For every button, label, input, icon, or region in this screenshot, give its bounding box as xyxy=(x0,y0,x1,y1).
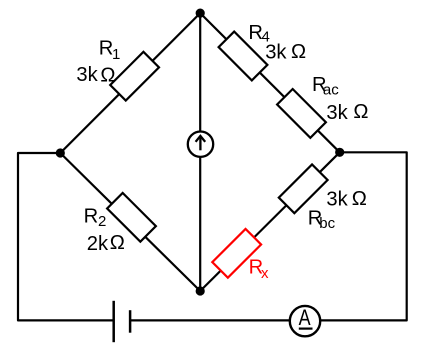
svg-text:3k: 3k xyxy=(76,64,98,86)
wire left-node to bottom-node (branch with R2) xyxy=(60,153,200,291)
wire right-node to bottom-node (branch with Rbc and Rx) xyxy=(200,152,340,291)
resistor R4 xyxy=(219,32,268,81)
label Rbc xyxy=(308,208,336,232)
resistor Rx (unknown, red) xyxy=(212,229,261,278)
svg-text:A: A xyxy=(299,306,311,330)
svg-text:x: x xyxy=(261,265,269,282)
wire left loop: left-node to battery positive plate xyxy=(18,153,114,320)
svg-text:2k: 2k xyxy=(87,233,109,255)
resistor R2 xyxy=(107,193,156,242)
svg-text:Ω: Ω xyxy=(353,101,368,123)
ammeter A (circle with underlined letter A) xyxy=(290,306,320,336)
svg-text:bc: bc xyxy=(319,215,335,232)
svg-text:3k: 3k xyxy=(265,42,287,64)
label R2 xyxy=(84,206,107,230)
svg-text:ac: ac xyxy=(323,82,339,99)
label Rac xyxy=(312,74,339,99)
svg-text:Ω: Ω xyxy=(110,232,125,254)
label R1 value 3kΩ xyxy=(76,64,115,87)
label R2 value 2kΩ xyxy=(87,232,125,255)
label R4 value 3kΩ xyxy=(265,41,306,63)
wire left-node to top-node (branch with R1) xyxy=(60,13,200,153)
svg-text:3k: 3k xyxy=(326,189,348,211)
battery (long positive plate, short negative plate) xyxy=(114,301,130,342)
resistor Rbc xyxy=(279,164,328,213)
label R4 xyxy=(248,22,269,46)
wire bottom and right loop: battery negative plate to ammeter to right-node xyxy=(130,152,407,320)
svg-text:Ω: Ω xyxy=(291,41,306,63)
node left (junction dot) xyxy=(56,148,65,157)
node right (junction dot) xyxy=(335,148,344,157)
svg-text:R: R xyxy=(84,206,99,228)
label Rbc value 3kΩ xyxy=(326,188,366,210)
wire center vertical top-node to bottom-node (through current source) xyxy=(199,13,201,291)
label R1 xyxy=(99,38,121,63)
svg-text:2: 2 xyxy=(98,213,106,230)
node top (junction dot) xyxy=(196,9,205,18)
current source (circle with up arrow) in galvanometer branch xyxy=(188,132,213,157)
svg-text:Ω: Ω xyxy=(100,65,115,87)
label Rx (red) xyxy=(249,256,269,282)
svg-text:3k: 3k xyxy=(326,102,348,124)
label Rac value 3kΩ xyxy=(326,101,368,124)
wire top-node to right-node (branch with R4 and Rac) xyxy=(200,13,340,152)
svg-text:Ω: Ω xyxy=(352,188,367,210)
svg-text:1: 1 xyxy=(112,46,120,63)
resistor Rac xyxy=(277,89,326,138)
node bottom (junction dot) xyxy=(196,286,205,295)
resistor R1 xyxy=(110,52,159,101)
